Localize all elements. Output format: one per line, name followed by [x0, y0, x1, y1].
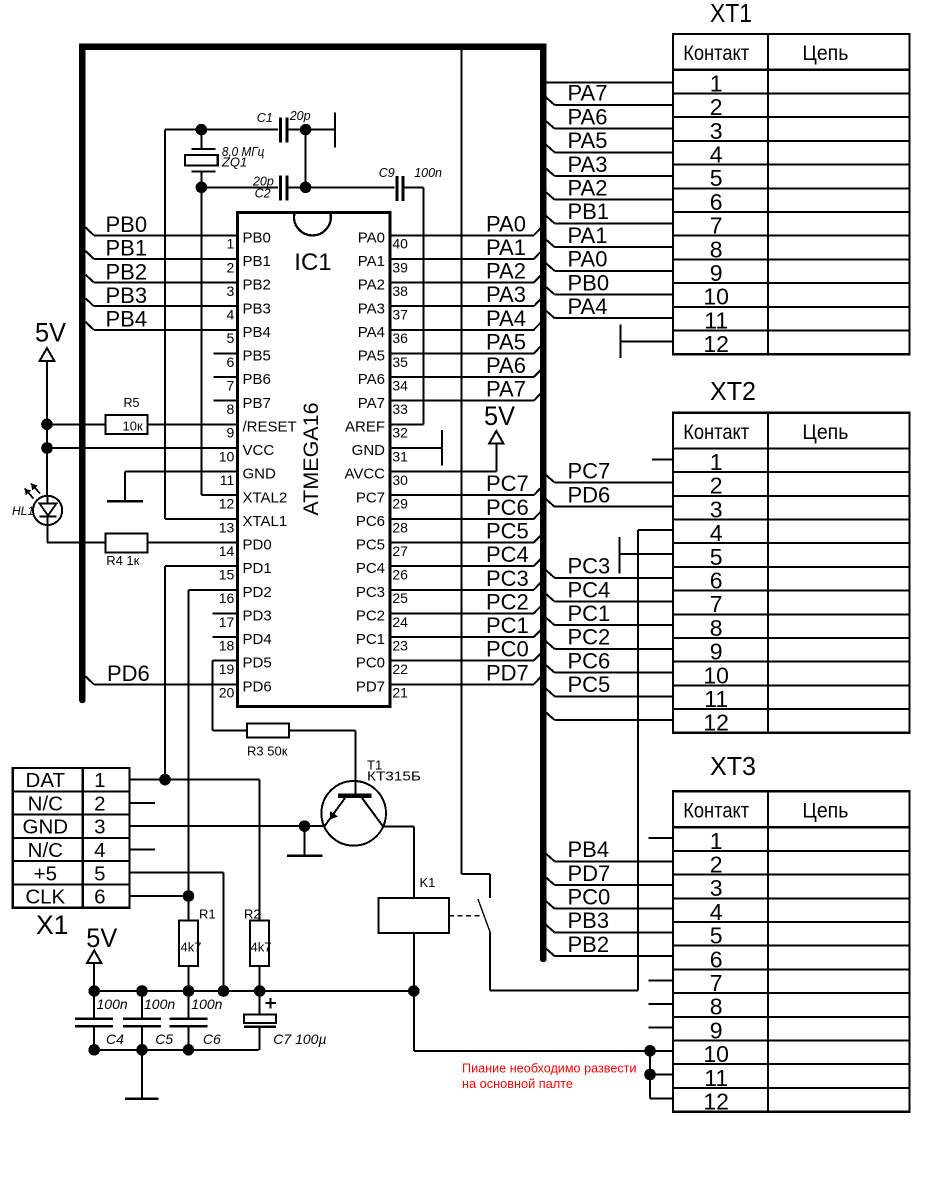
svg-text:4: 4: [227, 307, 235, 323]
svg-text:PD7: PD7: [568, 861, 611, 886]
svg-text:HL1: HL1: [12, 504, 34, 518]
svg-text:4k7: 4k7: [181, 940, 202, 955]
svg-text:IC1: IC1: [294, 249, 331, 276]
svg-text:XT3: XT3: [710, 751, 756, 781]
svg-text:PB1: PB1: [106, 236, 148, 261]
svg-text:10: 10: [219, 448, 235, 464]
svg-text:PC5: PC5: [486, 518, 529, 543]
svg-text:15: 15: [219, 567, 235, 583]
svg-text:3: 3: [710, 875, 723, 901]
svg-text:PB2: PB2: [243, 277, 271, 294]
svg-text:на основной палте: на основной палте: [462, 1076, 573, 1091]
svg-text:PA4: PA4: [568, 294, 608, 319]
svg-text:2: 2: [710, 851, 723, 877]
svg-text:C9: C9: [379, 166, 395, 180]
svg-text:18: 18: [219, 637, 235, 653]
svg-text:GND: GND: [352, 442, 386, 459]
svg-text:PA4: PA4: [358, 324, 385, 341]
svg-text:6: 6: [227, 354, 235, 370]
svg-text:5V: 5V: [35, 318, 66, 348]
svg-text:X1: X1: [36, 910, 68, 940]
svg-text:8: 8: [710, 994, 723, 1020]
svg-text:23: 23: [392, 637, 408, 653]
svg-text:Цепь: Цепь: [802, 800, 848, 823]
svg-text:PC7: PC7: [356, 489, 385, 506]
svg-text:PD3: PD3: [243, 607, 272, 624]
svg-text:R2: R2: [244, 907, 261, 922]
svg-text:PC6: PC6: [486, 495, 529, 520]
svg-text:12: 12: [219, 496, 235, 512]
svg-text:Контакт: Контакт: [683, 800, 749, 823]
svg-text:100n: 100n: [414, 166, 442, 180]
svg-text:PB1: PB1: [243, 253, 271, 270]
svg-text:C5: C5: [155, 1031, 173, 1047]
svg-text:10: 10: [703, 284, 729, 310]
svg-text:8: 8: [710, 615, 723, 641]
svg-text:PC6: PC6: [568, 648, 611, 673]
svg-text:100n: 100n: [97, 996, 128, 1012]
svg-text:39: 39: [392, 259, 408, 275]
svg-text:11: 11: [704, 686, 728, 712]
svg-text:C2: C2: [255, 187, 271, 201]
svg-text:30: 30: [392, 472, 408, 488]
svg-text:5V: 5V: [484, 401, 515, 431]
svg-text:PA2: PA2: [358, 277, 385, 294]
svg-text:КТ315Б: КТ315Б: [367, 769, 421, 784]
svg-text:19: 19: [219, 661, 235, 677]
svg-text:5: 5: [710, 165, 723, 191]
svg-text:PA3: PA3: [568, 152, 608, 177]
svg-text:8: 8: [227, 401, 235, 417]
svg-text:1: 1: [710, 449, 723, 475]
svg-text:ATMEGA16: ATMEGA16: [299, 402, 323, 515]
svg-text:PC5: PC5: [356, 537, 385, 554]
svg-text:32: 32: [392, 425, 408, 441]
svg-text:PD7: PD7: [356, 678, 385, 695]
svg-text:C6: C6: [203, 1031, 221, 1047]
svg-text:3: 3: [94, 816, 105, 839]
svg-text:10: 10: [703, 1041, 729, 1067]
svg-text:4: 4: [710, 520, 723, 546]
svg-text:PA6: PA6: [568, 104, 608, 129]
svg-text:PA1: PA1: [568, 223, 608, 248]
svg-text:PB1: PB1: [568, 199, 610, 224]
svg-text:PA5: PA5: [358, 348, 385, 365]
svg-text:PB0: PB0: [106, 212, 148, 237]
svg-text:PA7: PA7: [486, 377, 526, 402]
svg-text:PC6: PC6: [356, 513, 385, 530]
svg-text:25: 25: [392, 590, 408, 606]
svg-text:5: 5: [710, 544, 723, 570]
svg-text:7: 7: [227, 377, 235, 393]
svg-text:R5: R5: [124, 396, 140, 410]
svg-text:PA7: PA7: [358, 395, 385, 412]
svg-text:3: 3: [710, 118, 723, 144]
svg-text:PD6: PD6: [243, 678, 272, 695]
svg-text:PA3: PA3: [486, 282, 526, 307]
svg-text:100n: 100n: [191, 996, 222, 1012]
svg-text:PB4: PB4: [106, 307, 148, 332]
svg-text:PC3: PC3: [356, 584, 385, 601]
svg-text:Цепь: Цепь: [802, 421, 848, 444]
svg-text:PC3: PC3: [568, 554, 611, 579]
svg-text:K1: K1: [420, 875, 436, 890]
svg-text:DAT: DAT: [26, 769, 66, 792]
svg-text:PA6: PA6: [358, 371, 385, 388]
svg-text:28: 28: [392, 519, 408, 535]
svg-text:Цепь: Цепь: [802, 42, 848, 65]
svg-text:4k7: 4k7: [251, 940, 272, 955]
svg-text:PC5: PC5: [568, 672, 611, 697]
svg-text:PC0: PC0: [356, 655, 385, 672]
svg-text:20p: 20p: [289, 109, 311, 123]
svg-text:26: 26: [392, 567, 408, 583]
svg-text:4: 4: [710, 141, 723, 167]
svg-text:PC2: PC2: [486, 589, 529, 614]
svg-text:5: 5: [227, 330, 235, 346]
svg-text:6: 6: [710, 567, 723, 593]
svg-text:PB4: PB4: [243, 324, 271, 341]
svg-text:1: 1: [710, 828, 723, 854]
svg-text:PB6: PB6: [243, 371, 271, 388]
svg-text:12: 12: [703, 710, 729, 736]
svg-text:R1: R1: [199, 907, 216, 922]
svg-text:34: 34: [392, 377, 408, 393]
svg-text:100n: 100n: [144, 996, 175, 1012]
svg-text:1: 1: [227, 236, 235, 252]
svg-text:PB0: PB0: [568, 270, 610, 295]
svg-text:C7 100µ: C7 100µ: [273, 1031, 326, 1047]
svg-text:9: 9: [710, 1017, 723, 1043]
svg-text:9: 9: [710, 260, 723, 286]
svg-text:2: 2: [227, 259, 235, 275]
svg-text:11: 11: [220, 472, 235, 488]
svg-text:AREF: AREF: [345, 418, 385, 435]
svg-text:PC4: PC4: [568, 577, 611, 602]
svg-text:36: 36: [392, 330, 408, 346]
svg-text:PA3: PA3: [358, 300, 385, 317]
svg-text:PC0: PC0: [568, 884, 611, 909]
svg-text:5: 5: [94, 862, 105, 885]
svg-text:20: 20: [219, 685, 235, 701]
svg-text:2: 2: [710, 94, 723, 120]
svg-text:PD5: PD5: [243, 655, 272, 672]
svg-text:29: 29: [392, 496, 408, 512]
svg-text:PA4: PA4: [486, 306, 526, 331]
svg-text:C1: C1: [257, 111, 273, 125]
svg-text:Пиание необходимо развести: Пиание необходимо развести: [462, 1060, 637, 1075]
svg-text:PA2: PA2: [568, 175, 608, 200]
svg-text:PD6: PD6: [568, 482, 611, 507]
svg-text:12: 12: [703, 1088, 729, 1114]
svg-text:8: 8: [710, 236, 723, 262]
svg-text:/RESET: /RESET: [243, 418, 297, 435]
svg-text:7: 7: [710, 970, 723, 996]
svg-text:4: 4: [94, 839, 105, 862]
svg-text:PB0: PB0: [243, 229, 271, 246]
svg-text:PC0: PC0: [486, 637, 529, 662]
svg-text:PA0: PA0: [358, 229, 385, 246]
svg-text:PA2: PA2: [486, 259, 526, 284]
svg-text:6: 6: [710, 946, 723, 972]
svg-text:PB4: PB4: [568, 837, 610, 862]
svg-text:R4 1к: R4 1к: [106, 553, 139, 568]
svg-text:PC2: PC2: [568, 625, 611, 650]
svg-text:N/C: N/C: [28, 792, 64, 815]
svg-text:C4: C4: [106, 1031, 124, 1047]
svg-text:10к: 10к: [123, 418, 143, 433]
svg-text:6: 6: [710, 189, 723, 215]
svg-text:21: 21: [392, 685, 408, 701]
svg-text:37: 37: [392, 307, 408, 323]
svg-text:7: 7: [710, 213, 723, 239]
svg-text:GND: GND: [243, 466, 277, 483]
svg-text:33: 33: [392, 401, 408, 417]
svg-text:GND: GND: [23, 816, 69, 839]
svg-text:3: 3: [227, 283, 235, 299]
svg-text:PB7: PB7: [243, 395, 271, 412]
svg-text:PD2: PD2: [243, 584, 272, 601]
svg-text:10: 10: [703, 662, 729, 688]
svg-text:PA6: PA6: [486, 353, 526, 378]
svg-text:PD0: PD0: [243, 537, 272, 554]
svg-text:PB2: PB2: [106, 259, 148, 284]
svg-text:13: 13: [219, 519, 235, 535]
svg-text:XTAL2: XTAL2: [243, 489, 288, 506]
svg-text:PC4: PC4: [356, 560, 385, 577]
svg-text:2: 2: [710, 473, 723, 499]
svg-text:PB3: PB3: [243, 300, 271, 317]
svg-text:11: 11: [704, 307, 728, 333]
svg-text:PC1: PC1: [486, 613, 529, 638]
svg-text:PA1: PA1: [358, 253, 385, 270]
svg-text:PD6: PD6: [107, 661, 150, 686]
svg-text:PC1: PC1: [356, 631, 385, 648]
svg-text:Контакт: Контакт: [683, 42, 749, 65]
svg-text:35: 35: [392, 354, 408, 370]
svg-text:31: 31: [392, 448, 408, 464]
svg-text:PB5: PB5: [243, 348, 271, 365]
svg-text:PD4: PD4: [243, 631, 272, 648]
svg-text:Контакт: Контакт: [683, 421, 749, 444]
svg-text:PC1: PC1: [568, 601, 611, 626]
svg-text:5: 5: [710, 923, 723, 949]
svg-text:17: 17: [219, 614, 235, 630]
svg-text:16: 16: [219, 590, 235, 606]
svg-text:27: 27: [392, 543, 408, 559]
svg-text:9: 9: [227, 425, 235, 441]
svg-text:XTAL1: XTAL1: [243, 513, 288, 530]
svg-text:PA5: PA5: [486, 329, 526, 354]
svg-text:22: 22: [392, 661, 408, 677]
svg-text:PA7: PA7: [568, 81, 608, 106]
svg-text:9: 9: [710, 639, 723, 665]
svg-text:PC2: PC2: [356, 607, 385, 624]
svg-text:XT1: XT1: [710, 0, 752, 28]
svg-text:12: 12: [703, 331, 729, 357]
svg-text:2: 2: [94, 792, 105, 815]
svg-text:PA0: PA0: [568, 247, 608, 272]
svg-text:11: 11: [704, 1065, 728, 1091]
svg-text:R3 50к: R3 50к: [247, 744, 288, 759]
svg-text:1: 1: [710, 70, 723, 96]
svg-text:AVCC: AVCC: [344, 466, 385, 483]
svg-text:3: 3: [710, 496, 723, 522]
svg-text:CLK: CLK: [25, 886, 65, 909]
svg-text:VCC: VCC: [243, 442, 275, 459]
svg-text:PC7: PC7: [486, 471, 529, 496]
svg-text:PC3: PC3: [486, 566, 529, 591]
svg-text:PA5: PA5: [568, 128, 608, 153]
svg-text:+5: +5: [34, 862, 57, 885]
svg-text:ZQ1: ZQ1: [221, 155, 247, 170]
svg-text:38: 38: [392, 283, 408, 299]
svg-text:6: 6: [94, 886, 105, 909]
svg-text:PB3: PB3: [106, 283, 148, 308]
svg-text:PC4: PC4: [486, 542, 529, 567]
svg-text:PD1: PD1: [243, 560, 272, 577]
svg-text:PA0: PA0: [486, 211, 526, 236]
svg-text:PA1: PA1: [486, 235, 526, 260]
svg-text:PB3: PB3: [568, 908, 610, 933]
svg-text:XT2: XT2: [710, 376, 756, 406]
svg-text:PB2: PB2: [568, 932, 610, 957]
svg-text:PD7: PD7: [486, 660, 529, 685]
svg-text:40: 40: [392, 236, 408, 252]
svg-text:7: 7: [710, 591, 723, 617]
svg-text:24: 24: [392, 614, 408, 630]
svg-text:5V: 5V: [86, 923, 117, 953]
svg-text:14: 14: [219, 543, 235, 559]
svg-text:N/C: N/C: [28, 839, 64, 862]
svg-text:4: 4: [710, 899, 723, 925]
svg-text:1: 1: [94, 769, 105, 792]
svg-text:PC7: PC7: [568, 458, 611, 483]
